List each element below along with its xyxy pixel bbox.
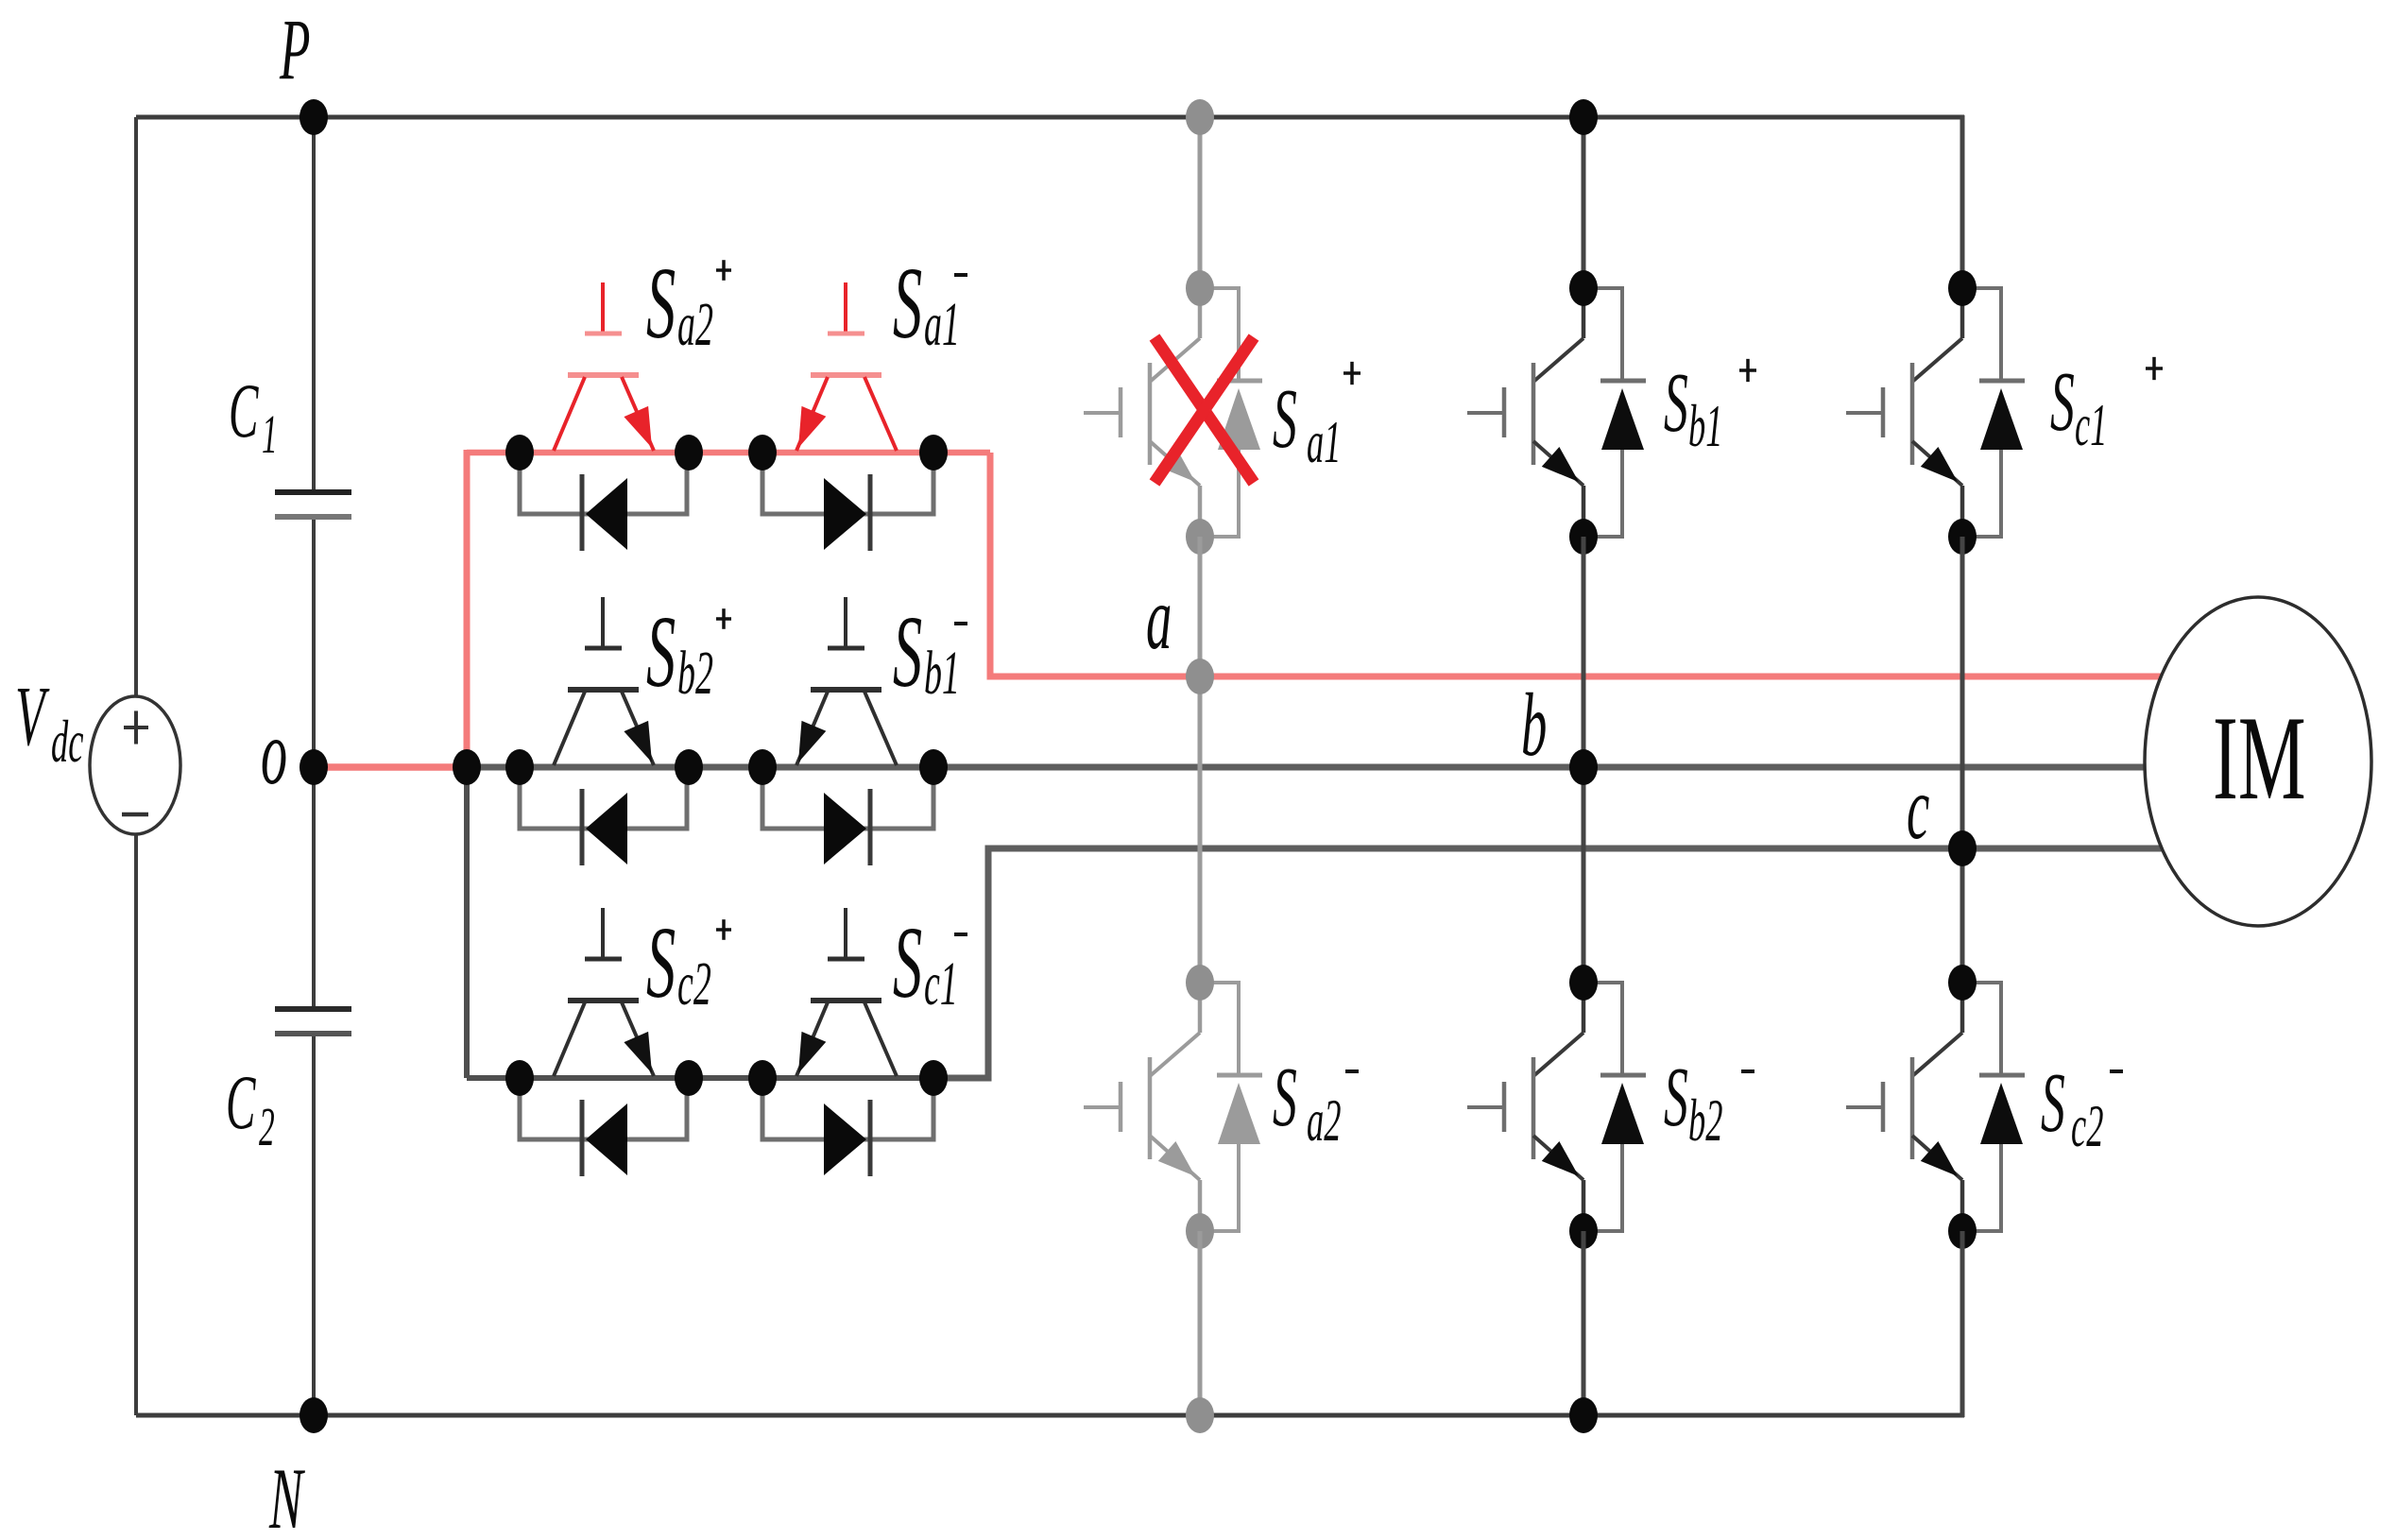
svg-text:S: S — [2041, 1055, 2065, 1149]
svg-text:C: C — [226, 1061, 256, 1145]
svg-text:a1: a1 — [1307, 410, 1341, 476]
svg-text:IM: IM — [2213, 692, 2306, 825]
svg-text:P: P — [279, 2, 310, 98]
svg-text:S: S — [893, 906, 922, 1019]
svg-text:a1: a1 — [924, 289, 960, 359]
svg-text:S: S — [646, 906, 676, 1019]
svg-text:a2: a2 — [1307, 1088, 1341, 1155]
svg-text:c: c — [1907, 758, 1929, 857]
svg-text:dc: dc — [51, 710, 83, 776]
svg-text:C: C — [229, 369, 259, 453]
svg-text:b1: b1 — [924, 638, 960, 708]
svg-text:a2: a2 — [677, 289, 713, 359]
svg-text:c2: c2 — [2071, 1094, 2103, 1160]
svg-text:c1: c1 — [924, 949, 958, 1018]
svg-text:S: S — [1664, 355, 1688, 449]
svg-text:b1: b1 — [1688, 394, 1722, 460]
svg-text:b: b — [1521, 675, 1547, 774]
svg-text:b2: b2 — [1688, 1088, 1722, 1155]
svg-text:N: N — [268, 1451, 305, 1540]
svg-text:S: S — [893, 247, 922, 360]
svg-text:S: S — [1273, 371, 1297, 465]
svg-text:c1: c1 — [2075, 393, 2107, 459]
svg-text:S: S — [646, 247, 676, 360]
svg-text:V: V — [15, 669, 50, 762]
svg-text:S: S — [1664, 1050, 1688, 1143]
svg-text:b2: b2 — [677, 638, 713, 708]
svg-text:1: 1 — [262, 405, 278, 466]
svg-text:o: o — [261, 702, 287, 804]
svg-text:S: S — [646, 595, 676, 709]
svg-text:a: a — [1146, 568, 1172, 667]
svg-text:S: S — [893, 595, 922, 709]
svg-text:S: S — [1273, 1050, 1297, 1143]
svg-text:2: 2 — [259, 1098, 275, 1158]
svg-text:S: S — [2050, 354, 2075, 448]
svg-text:c2: c2 — [677, 949, 711, 1018]
